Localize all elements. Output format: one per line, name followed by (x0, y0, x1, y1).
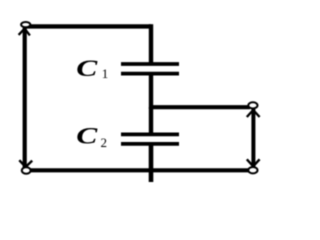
terminal node top-right (248, 102, 257, 108)
svg-text:C: C (76, 122, 98, 148)
wire: bottom rail from node A' to node B' (24, 168, 251, 172)
wire: right voltage arrow shaft (251, 108, 255, 168)
wire: C1 top lead (149, 24, 153, 64)
terminal node bottom-right (248, 167, 257, 173)
terminal node bottom-left (22, 167, 31, 173)
wire: top rail from node A to C1 top lead (24, 24, 151, 28)
capacitor C1 bottom plate (121, 72, 179, 76)
arrowhead up at top-left (19, 29, 30, 36)
capacitor C2 bottom plate (121, 142, 179, 146)
wire: left voltage arrow shaft (23, 28, 27, 169)
arrowhead down at bottom-right (247, 159, 260, 166)
wire: mid rail from junction to node B (149, 105, 250, 109)
wire: C2 top lead (149, 107, 153, 134)
svg-text:C: C (76, 55, 98, 81)
svg-text:2: 2 (101, 135, 108, 150)
wire: C1 bottom lead to junction (149, 74, 153, 109)
arrowhead up at top-right (247, 110, 260, 117)
capacitor C2 top plate (121, 132, 179, 136)
svg-text:1: 1 (102, 66, 109, 81)
wire: C2 bottom lead crossing bottom rail (stub) (149, 144, 154, 182)
capacitor C1 top plate (121, 62, 179, 66)
terminal node top-left (21, 22, 30, 27)
arrowhead down at bottom-left (19, 160, 32, 167)
